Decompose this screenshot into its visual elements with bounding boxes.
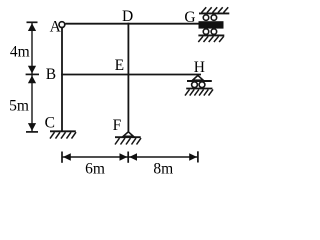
horizontal dimension line 6m xyxy=(62,156,128,158)
dimension tick below left column xyxy=(61,152,63,163)
roller support at H: ground line xyxy=(186,88,212,90)
guided roller support at G: lower roller 1 xyxy=(203,29,209,34)
pin support at F: triangle xyxy=(123,132,133,137)
svg-text:4m: 4m xyxy=(10,43,30,60)
dimension tick at level C xyxy=(26,131,38,133)
member: left column A-B-C xyxy=(61,28,63,132)
pin support at F: hatching xyxy=(115,138,141,144)
roller support at H: hatching xyxy=(185,89,213,95)
horizontal dimension line 8m xyxy=(128,156,198,158)
svg-text:8m: 8m xyxy=(153,161,173,178)
guided roller support at G: lower hatching xyxy=(198,36,224,42)
svg-text:6m: 6m xyxy=(85,160,105,177)
svg-text:B: B xyxy=(46,66,56,83)
guided roller support at G: lower roller 2 xyxy=(211,29,217,34)
arrowhead up from B xyxy=(28,76,36,84)
pin support at F: ground line xyxy=(115,136,141,138)
svg-text:D: D xyxy=(122,8,133,25)
member: middle beam B-E-H xyxy=(61,74,201,76)
guided roller support at G: block xyxy=(199,21,224,28)
roller support at H: roller 2 xyxy=(199,82,205,88)
arrowhead left on 6m xyxy=(63,153,71,160)
guided roller support at G: top ground line xyxy=(199,12,229,14)
guided roller support at G: upper roller 2 xyxy=(211,15,217,21)
vertical dimension line A-B-C xyxy=(31,22,33,132)
fixed support at C: hatching xyxy=(50,132,76,138)
svg-text:E: E xyxy=(115,57,124,74)
svg-text:5m: 5m xyxy=(9,97,29,114)
guided roller support at G: upper roller 1 xyxy=(203,15,209,21)
roller support at H: triangle xyxy=(193,75,204,80)
dimension tick at level A xyxy=(27,21,38,23)
roller support at H: top bar xyxy=(187,80,212,82)
arrowhead down to B xyxy=(28,66,36,74)
arrowhead right on 6m xyxy=(120,153,128,160)
svg-text:C: C xyxy=(45,114,55,131)
svg-text:G: G xyxy=(184,9,195,26)
arrowhead left on 8m xyxy=(129,153,137,160)
svg-text:H: H xyxy=(194,59,205,76)
guided roller support at G: lower ground line xyxy=(198,34,224,36)
arrowhead down to C xyxy=(28,123,36,131)
svg-text:F: F xyxy=(113,117,122,134)
guided roller support at G: top hatching xyxy=(202,7,229,12)
member: top beam A-D-G xyxy=(65,23,199,25)
dimension tick below middle column xyxy=(127,152,129,163)
dimension tick at level B xyxy=(26,73,39,75)
hinge circle at A xyxy=(59,22,65,28)
arrowhead right on 8m xyxy=(189,153,197,160)
roller support at H: roller 1 xyxy=(192,82,198,88)
svg-text:A: A xyxy=(50,19,62,36)
member: middle column D-E-F xyxy=(127,23,129,132)
fixed support at C: ground line xyxy=(50,130,76,132)
dimension tick at right end xyxy=(197,151,199,162)
arrowhead up to A xyxy=(28,23,36,31)
